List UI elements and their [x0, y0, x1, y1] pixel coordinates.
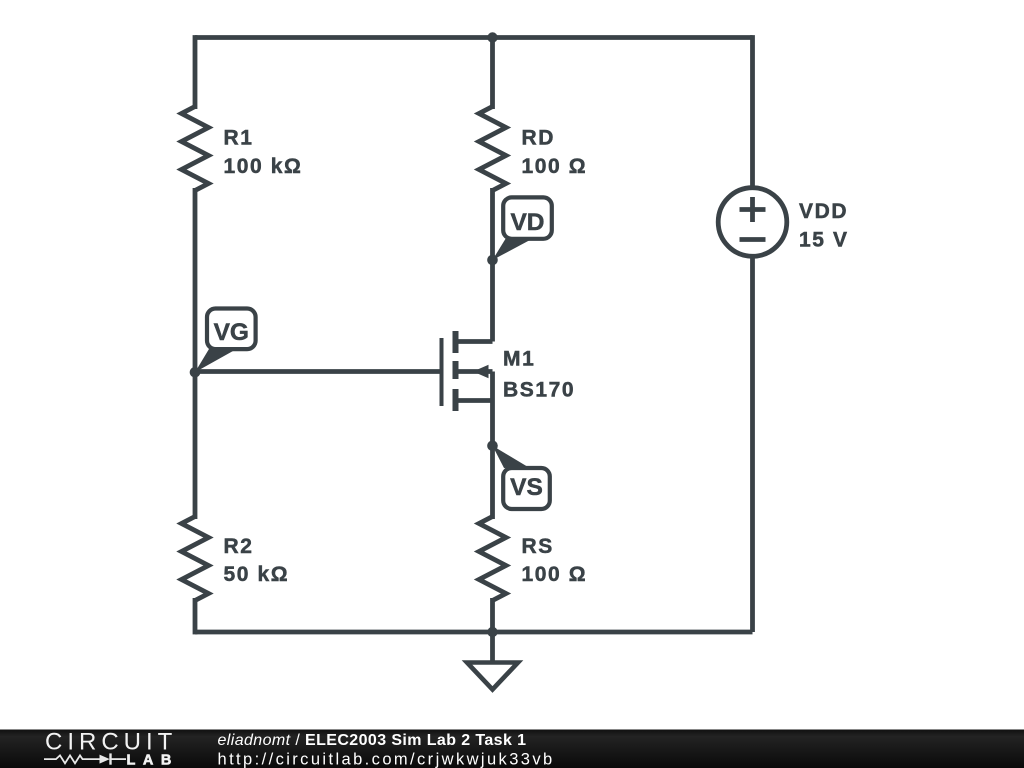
- svg-text:R1: R1: [224, 126, 254, 149]
- svg-text:RD: RD: [522, 126, 556, 149]
- svg-text:100 kΩ: 100 kΩ: [224, 155, 303, 178]
- svg-text:100 Ω: 100 Ω: [522, 155, 588, 178]
- svg-text:VS: VS: [510, 474, 543, 501]
- svg-text:CIRCUIT: CIRCUIT: [45, 729, 177, 756]
- svg-text:15 V: 15 V: [799, 229, 849, 252]
- svg-text:LAB: LAB: [127, 753, 179, 768]
- svg-text:BS170: BS170: [503, 379, 575, 402]
- svg-text:VD: VD: [510, 209, 544, 236]
- svg-text:100 Ω: 100 Ω: [522, 563, 588, 586]
- svg-text:VDD: VDD: [799, 200, 848, 223]
- svg-text:VG: VG: [214, 319, 249, 346]
- svg-text:eliadnomt / ELEC2003 Sim Lab 2: eliadnomt / ELEC2003 Sim Lab 2 Task 1: [218, 732, 527, 749]
- svg-text:50 kΩ: 50 kΩ: [224, 563, 290, 586]
- svg-text:R2: R2: [224, 535, 254, 558]
- svg-text:http://circuitlab.com/crjwkwju: http://circuitlab.com/crjwkwjuk33vb: [218, 751, 555, 768]
- svg-text:RS: RS: [522, 535, 554, 558]
- svg-text:M1: M1: [503, 348, 535, 371]
